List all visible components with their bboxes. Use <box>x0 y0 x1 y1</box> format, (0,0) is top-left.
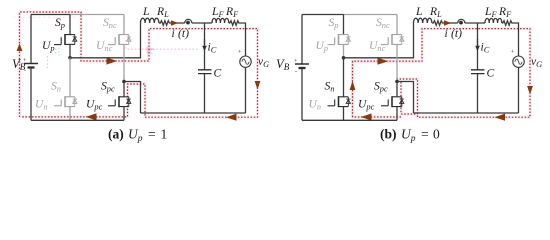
output network reused <box>414 5 543 113</box>
cyan ghost fragment near S_p <box>58 48 60 56</box>
pink ghost arrow <box>147 47 156 52</box>
midpoint wire to riser black <box>344 23 414 58</box>
wire node to S_pc drain <box>123 82 125 97</box>
transistor S_n (black in b) <box>328 96 351 107</box>
midpoint wire to riser <box>70 23 141 58</box>
node leg B midpoint dot <box>395 80 399 84</box>
leg A drain wire <box>69 15 71 35</box>
transistor S_p (MOSFET, black) <box>54 34 77 45</box>
hump over node <box>185 19 192 23</box>
cyan ghost arrow <box>147 51 154 55</box>
leg A lower black wire <box>343 58 345 97</box>
output bottom wire <box>141 112 246 114</box>
leg A drain wire black <box>343 15 345 35</box>
top rail gray leg A to leg B <box>344 14 398 16</box>
resistor R_F zigzag <box>229 21 240 26</box>
svg-text:=: = <box>148 127 156 142</box>
svg-text:L: L <box>142 5 149 18</box>
leg B drain wire gray <box>396 15 398 35</box>
top rail black (battery to leg A) <box>31 14 70 16</box>
leg B wire gray down to node <box>123 44 125 80</box>
transistor S_p (gray in b) <box>328 34 351 45</box>
node dot <box>186 21 190 25</box>
pink ghost path (freewheel ghost) <box>126 40 199 49</box>
sine inside source <box>242 59 249 64</box>
leg A lower gray wire <box>69 58 71 97</box>
battery plates <box>24 63 38 65</box>
red arrow left (bottom rail) <box>361 113 372 120</box>
S_n source wire black <box>343 107 345 121</box>
S_pc source wire <box>123 107 125 121</box>
red arrow left (output bottom) <box>495 114 506 121</box>
capacitor C plates <box>198 70 212 74</box>
S_p source wire gray <box>343 44 345 57</box>
red freewheel path: up through Sn, midpoint, riser, grid, down, bottom, around Spc <box>353 29 531 118</box>
red arrow left (output bottom) <box>226 114 237 121</box>
transistor S_nc (MOSFET, gray) <box>108 34 131 45</box>
svg-text:(t): (t) <box>178 27 189 40</box>
svg-text:(b): (b) <box>380 127 397 142</box>
battery plates <box>295 63 309 65</box>
red conduction path: battery up, top, through Sp, midpoint, up riser, to grid, down, bottom return, around Spc, back <box>20 12 258 117</box>
leg B wire gray to node <box>396 44 398 80</box>
current arrow i(t) brown <box>171 20 179 25</box>
pink artifact line below top red <box>13 16 78 18</box>
transistor S_pc (black) <box>381 96 404 107</box>
node leg B midpoint (dot) <box>122 80 126 84</box>
top rail black battery to leg A <box>302 14 344 16</box>
red arrow up (S_n leg) <box>350 81 356 90</box>
red arrow right (midpoint) <box>378 58 389 65</box>
node midpoint leg A <box>342 56 346 60</box>
pink ghost fragment near S_p <box>55 49 57 57</box>
red path bottom left segment <box>353 116 402 118</box>
wire R_L to node <box>171 22 185 24</box>
capacitor lower wire <box>204 74 206 113</box>
transistor S_nc (gray) <box>381 34 404 45</box>
red conduction path halo <box>20 12 258 117</box>
wire node B to output return <box>124 82 141 114</box>
top rail gray (leg A to leg B) <box>70 14 124 16</box>
transistor S_pc (MOSFET, black) <box>108 96 131 107</box>
wire node B to output return <box>397 82 414 114</box>
source v_G circle <box>240 56 251 67</box>
battery V_B branch <box>301 15 303 121</box>
S_pc source wire <box>396 107 398 121</box>
wire node to L_F <box>192 22 212 24</box>
grid lower wire <box>245 68 247 114</box>
resistor R_L zigzag <box>159 21 171 26</box>
i_C arrow <box>204 39 206 47</box>
red arrow left (battery bottom rail) <box>86 113 97 120</box>
node midpoint leg A <box>68 56 72 60</box>
red arrow right (midpoint) <box>107 57 118 64</box>
red arrow up (left battery side) <box>17 44 23 52</box>
svg-text:i: i <box>172 27 175 40</box>
pink artifact column near battery <box>47 56 49 70</box>
S_p source wire to midpoint <box>69 44 71 57</box>
battery V_B branch <box>30 15 32 121</box>
inductor L coil <box>141 18 159 23</box>
extra pink highlight S_n leg and midpoint (b) <box>353 61 420 118</box>
svg-text:C: C <box>214 67 222 80</box>
svg-text:-: - <box>295 69 297 75</box>
red arrow down (grid side) <box>255 81 261 90</box>
svg-text:=: = <box>421 127 429 142</box>
inductor L_F coil <box>212 18 229 23</box>
wire node to S_pc drain <box>396 82 398 97</box>
wire R_F to grid corner <box>240 23 246 56</box>
bottom rail black (battery return) <box>31 119 124 121</box>
transistor S_n (MOSFET, gray) <box>54 96 77 107</box>
S_n source wire gray <box>69 107 71 121</box>
capacitor branch upper wire <box>204 23 206 70</box>
svg-text:0: 0 <box>433 127 440 142</box>
bottom rail black <box>302 119 397 121</box>
svg-text:1: 1 <box>161 127 168 142</box>
red arrow down (grid side) <box>527 86 533 95</box>
red path inner segment at S_pc <box>401 82 418 114</box>
leg B drain wire gray <box>123 15 125 35</box>
red freewheel path halo <box>353 29 531 118</box>
svg-text:(a): (a) <box>108 127 124 142</box>
